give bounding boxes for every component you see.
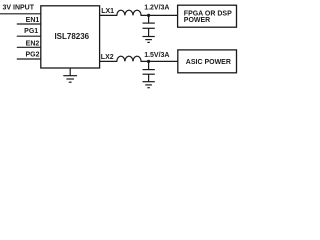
svg-text:POWER: POWER	[184, 17, 210, 24]
svg-text:ASIC POWER: ASIC POWER	[186, 59, 231, 66]
svg-text:3V INPUT: 3V INPUT	[3, 4, 35, 11]
svg-text:LX1: LX1	[101, 8, 114, 15]
svg-text:EN2: EN2	[26, 41, 40, 48]
svg-text:PG2: PG2	[25, 52, 39, 59]
svg-text:LX2: LX2	[101, 54, 114, 61]
svg-text:1.2V/3A: 1.2V/3A	[144, 5, 169, 12]
svg-text:ISL78236: ISL78236	[54, 32, 89, 41]
svg-text:EN1: EN1	[26, 17, 40, 24]
svg-text:PG1: PG1	[24, 28, 38, 35]
svg-text:1.5V/3A: 1.5V/3A	[144, 52, 169, 59]
